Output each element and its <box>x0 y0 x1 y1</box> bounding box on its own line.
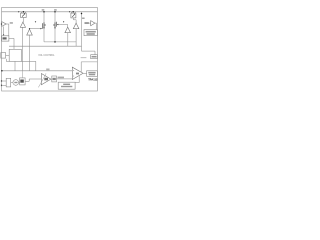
svg-text:VOL CONTROL: VOL CONTROL <box>38 55 55 57</box>
svg-text:TPA112: TPA112 <box>88 78 98 82</box>
